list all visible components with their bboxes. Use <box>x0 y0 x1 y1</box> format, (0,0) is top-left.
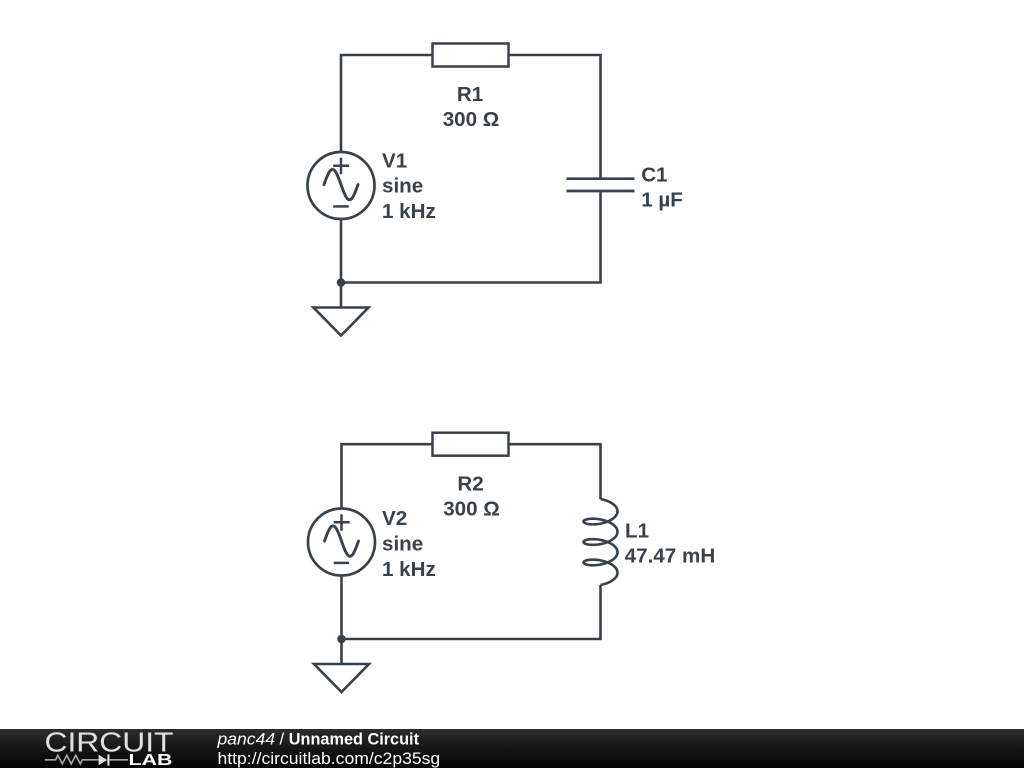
V2 designator label <box>382 507 407 530</box>
R2 value label 300 Ω <box>443 497 500 520</box>
R1 designator label <box>457 83 483 106</box>
svg-text:sine: sine <box>382 175 423 198</box>
ground (circuit 2) <box>314 664 369 692</box>
svg-text:R2: R2 <box>457 472 483 495</box>
wire: V2 top to R2 left (circuit 2 top-left) <box>342 444 434 508</box>
L1 designator label <box>625 520 649 543</box>
L1 value label 47.47 mH <box>625 545 716 568</box>
svg-text:http://circuitlab.com/c2p35sg: http://circuitlab.com/c2p35sg <box>218 749 441 768</box>
CircuitLab logo wordmark CIRCUIT <box>45 726 174 757</box>
capacitor C1 <box>567 179 635 191</box>
svg-text:47.47 mH: 47.47 mH <box>625 545 716 568</box>
voltage source V2 <box>308 509 375 576</box>
ground (circuit 1) <box>314 308 369 336</box>
V1 type label sine <box>382 175 423 198</box>
svg-text:V2: V2 <box>382 507 407 530</box>
footer text: URL <box>218 749 441 768</box>
V2 type label sine <box>382 533 423 556</box>
footer text: author / title <box>216 730 419 749</box>
svg-text:R1: R1 <box>457 83 483 106</box>
footer bar background <box>0 729 1024 768</box>
svg-text:C1: C1 <box>641 163 667 186</box>
R2 designator label <box>457 472 483 495</box>
node: circuit 1 ground junction dot <box>337 278 346 287</box>
C1 value label 1 µF <box>641 188 683 211</box>
inductor L1 <box>584 499 618 585</box>
svg-text:sine: sine <box>382 533 423 556</box>
svg-text:1 µF: 1 µF <box>641 188 683 211</box>
V1 value label 1 kHz <box>382 200 436 223</box>
svg-text:Unnamed Circuit: Unnamed Circuit <box>289 730 420 749</box>
C1 designator label <box>641 163 667 186</box>
V2 value label 1 kHz <box>382 558 436 581</box>
svg-text:L1: L1 <box>625 520 649 543</box>
CircuitLab logo wordmark LAB <box>129 752 173 768</box>
resistor R2 <box>433 433 509 456</box>
svg-text:/: / <box>280 730 285 749</box>
node: circuit 2 ground junction dot <box>337 635 346 644</box>
svg-text:300 Ω: 300 Ω <box>443 497 500 520</box>
svg-text:1 kHz: 1 kHz <box>382 558 436 581</box>
V1 designator label <box>382 150 407 173</box>
wire: V1 bottom to ground node <box>340 219 343 308</box>
wire: R2 right to L1 top (circuit 2 top-right) <box>509 444 601 499</box>
wire: R1 right to C1 top (circuit 1 top-right) <box>509 55 601 179</box>
svg-text:panc44: panc44 <box>216 730 275 749</box>
wire: V1 top to R1 left (circuit 1 top-left) <box>341 55 433 152</box>
svg-text:LAB: LAB <box>129 752 173 768</box>
voltage source V1 <box>308 152 375 219</box>
svg-text:V1: V1 <box>382 150 407 173</box>
svg-text:300 Ω: 300 Ω <box>443 108 500 131</box>
wire: C1 bottom to bottom-right corner <box>341 191 601 283</box>
svg-text:1 kHz: 1 kHz <box>382 200 436 223</box>
resistor R1 <box>433 44 509 67</box>
wire: V2 bottom to ground node <box>340 576 343 665</box>
R1 value label 300 Ω <box>443 108 500 131</box>
wire: L1 bottom to bottom-right corner <box>342 585 601 639</box>
CircuitLab logo resistor-diode glyph <box>45 754 128 765</box>
